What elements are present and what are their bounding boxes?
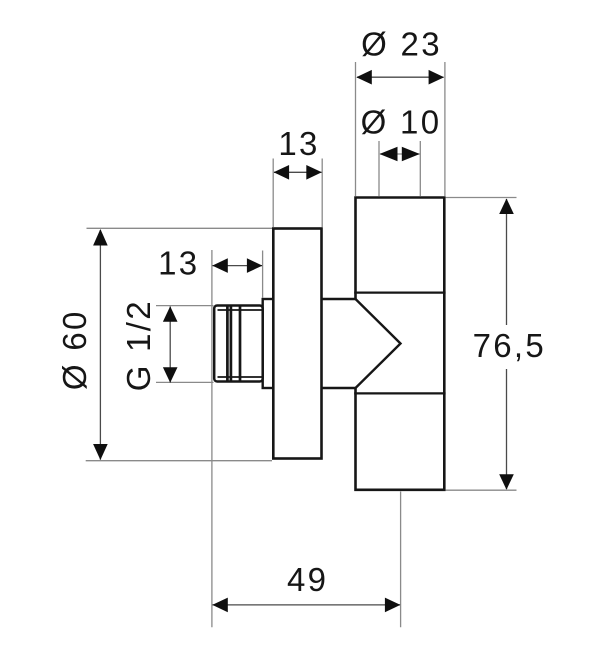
dimension 13 flange extension line left: [272, 159, 274, 228]
collar: [263, 299, 274, 388]
svg-text:76,5: 76,5: [473, 327, 546, 364]
dimension D60 arrow up: [93, 229, 108, 246]
dimension D10 arrow right: [402, 147, 420, 161]
dimension D23 extension line right: [444, 62, 446, 196]
chevron valve seat: [356, 299, 401, 388]
dimension 13 thread arrow left: [212, 258, 228, 273]
dimension 13 thread line: [213, 265, 263, 267]
dimension 49 arrow right: [385, 598, 401, 613]
dimension 49 extension line right: [400, 492, 402, 628]
dimension G12 extension line top: [156, 305, 214, 307]
dimension 765 extension line top: [446, 197, 517, 199]
dimension 49 arrow left: [212, 598, 228, 613]
dimension D60 extension line top: [87, 227, 273, 229]
valve body outline: [356, 198, 445, 490]
dimension 765 arrow down: [499, 474, 514, 490]
dimension D23 extension line left: [355, 62, 357, 196]
connector neck bottom edge: [322, 387, 356, 389]
dimension D23 arrow right: [429, 70, 445, 85]
dimension 13 thread arrow right: [247, 258, 263, 273]
svg-text:49: 49: [287, 561, 328, 598]
wall flange plate: [273, 229, 321, 459]
dimension D10 line: [380, 153, 420, 155]
dimension D23 arrow left: [356, 70, 372, 85]
svg-text:Ø 10: Ø 10: [361, 104, 442, 141]
thread line 2: [230, 306, 233, 382]
dimension 765 line upper segment: [506, 199, 508, 325]
dimension G12 arrow up: [163, 306, 178, 322]
dimension D60 extension line bottom: [86, 460, 272, 462]
body divider upper: [354, 292, 445, 294]
dimension 13 flange extension line right: [321, 159, 323, 228]
dimension 765 extension line bottom: [446, 489, 517, 491]
dimension 13 thread extension line right: [262, 251, 264, 299]
dimension D10 extension line right: [419, 141, 421, 196]
thread root top line: [218, 309, 263, 311]
dimension 13 flange line: [274, 171, 322, 173]
threaded nipple outer: [214, 306, 263, 382]
thread line 1: [226, 306, 229, 382]
body divider lower: [354, 392, 445, 394]
dimension 765 line lower segment: [506, 369, 508, 489]
dimension 13 flange arrow left: [274, 165, 290, 180]
thread root bottom line: [218, 376, 263, 378]
dimension D60 line: [99, 230, 101, 460]
dimension 765 arrow up: [499, 199, 514, 215]
dimension 13 flange arrow right: [306, 165, 322, 180]
dimension D60 arrow down: [93, 444, 108, 460]
dimension G12 line: [169, 307, 171, 383]
svg-text:13: 13: [158, 245, 199, 282]
dimension D23 line: [357, 76, 444, 78]
svg-text:13: 13: [278, 125, 319, 162]
dimension G12 arrow down: [163, 367, 178, 383]
dimension G12 extension line bottom: [156, 381, 214, 383]
dimension 49 line: [213, 604, 401, 606]
connector neck top edge: [322, 298, 356, 300]
dimension 13 thread long extension line: [211, 250, 213, 627]
svg-text:G 1/2: G 1/2: [120, 299, 157, 391]
svg-text:Ø 60: Ø 60: [56, 309, 93, 390]
dimension D10 arrow left: [380, 147, 398, 161]
dimension D10 extension line left: [378, 141, 380, 196]
thread line 3: [239, 306, 242, 382]
svg-text:Ø 23: Ø 23: [361, 26, 442, 63]
